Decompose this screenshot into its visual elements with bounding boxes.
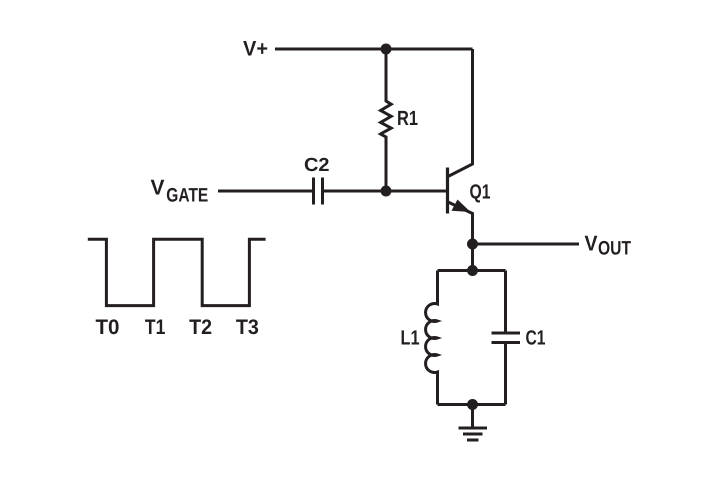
node E ground junction dot (467, 399, 478, 410)
node C emitter output junction dot (467, 239, 478, 250)
inductor L1 (426, 271, 438, 405)
svg-text:V+: V+ (243, 38, 268, 61)
transistor Q1 emitter (448, 202, 473, 244)
node D tank top junction dot (467, 265, 478, 276)
wire emitter node to tank (471, 244, 474, 271)
svg-text:L1: L1 (401, 326, 420, 349)
svg-text:R1: R1 (397, 107, 418, 130)
capacitor C1 (492, 271, 521, 405)
svg-text:T0: T0 (96, 316, 120, 339)
svg-text:V: V (585, 232, 599, 256)
wire VGATE to C2 (218, 190, 312, 193)
ground (459, 405, 488, 441)
node A junction dot at V+ rail (381, 44, 392, 55)
wire tank bottom rail (438, 403, 506, 406)
wire V+ top rail (275, 48, 473, 51)
svg-text:C2: C2 (304, 155, 330, 176)
resistor R1 (381, 49, 392, 191)
transistor Q1 emitter arrow (452, 200, 471, 213)
svg-text:T2: T2 (189, 316, 212, 339)
capacitor C2 (314, 178, 323, 205)
svg-text:V: V (151, 175, 166, 199)
svg-text:C1: C1 (526, 326, 546, 349)
svg-text:GATE: GATE (166, 184, 208, 206)
wire emitter node to VOUT (473, 243, 580, 246)
waveform square wave (88, 239, 266, 305)
svg-text:OUT: OUT (598, 238, 631, 260)
svg-text:T1: T1 (145, 316, 166, 339)
node B base junction dot (381, 186, 392, 197)
svg-text:T3: T3 (236, 316, 259, 339)
wire C2 to base (324, 190, 446, 193)
wire tank top rail (438, 269, 506, 272)
svg-text:Q1: Q1 (470, 180, 491, 203)
transistor Q1 collector (448, 49, 473, 177)
transistor Q1 base bar (446, 168, 449, 214)
